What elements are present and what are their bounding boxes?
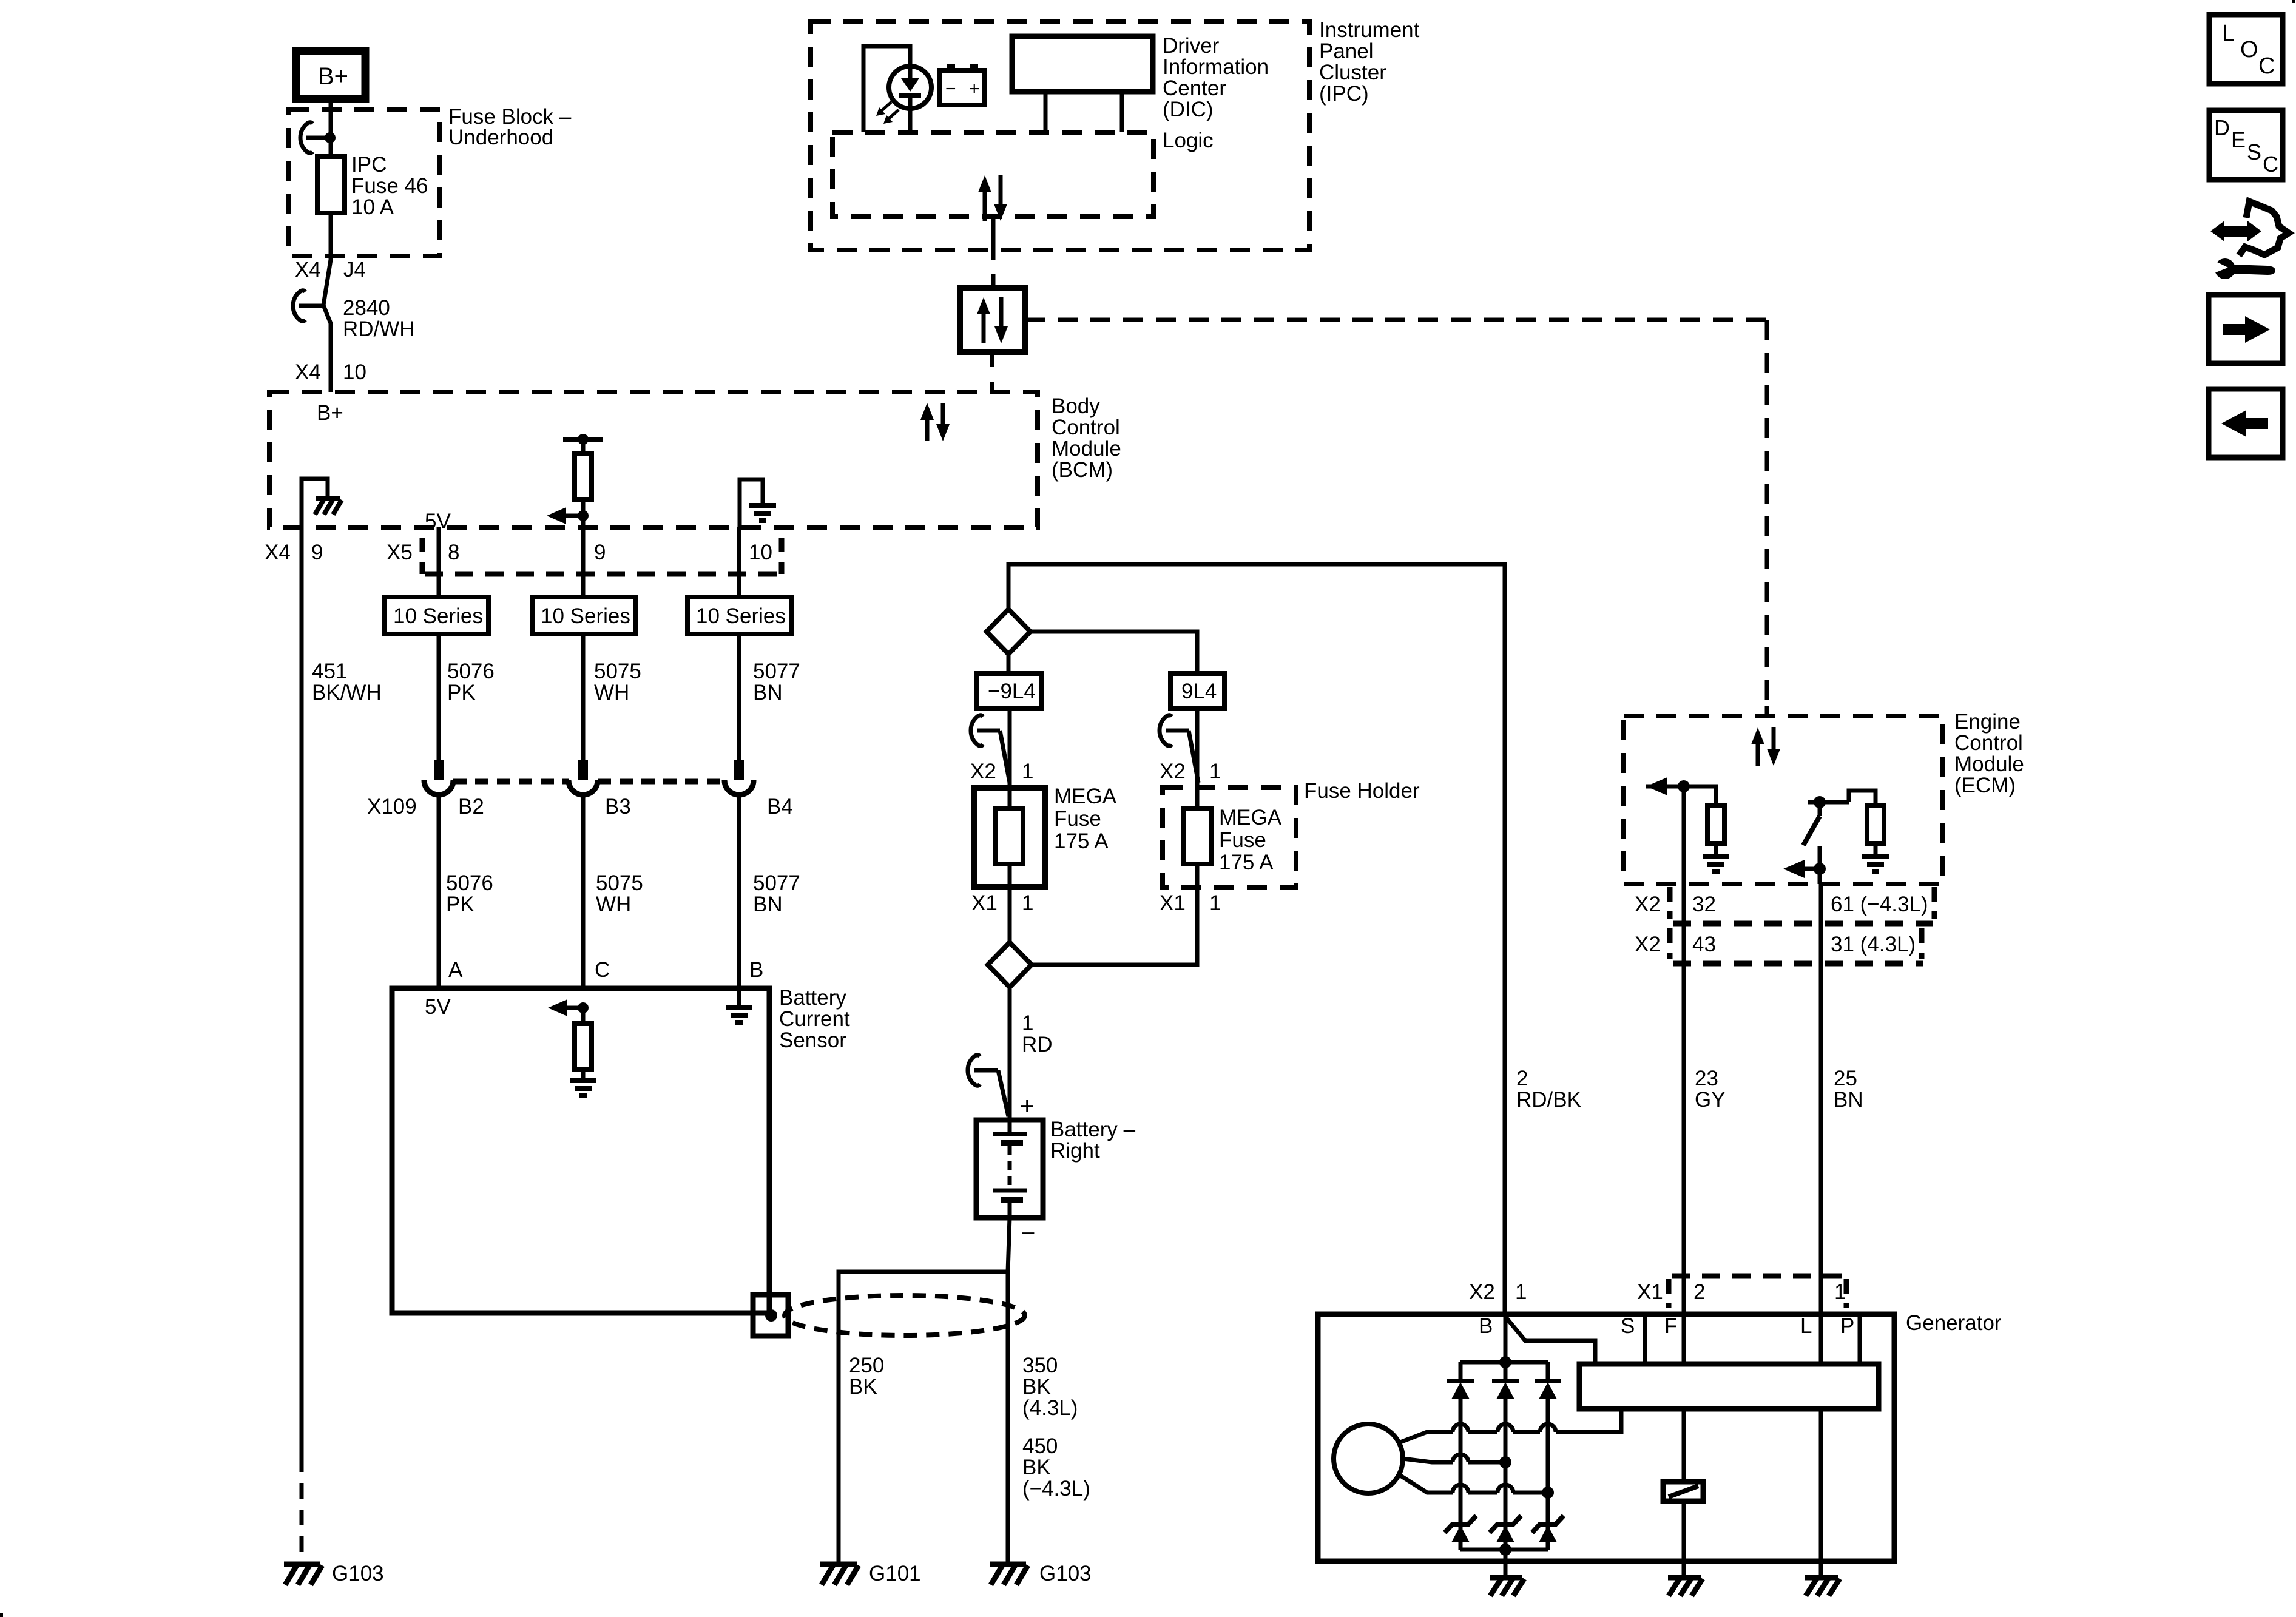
dashed connector line B3-B4	[598, 779, 724, 785]
ECM connector row X2 43 31	[1670, 928, 1923, 964]
svg-text:10 Series: 10 Series	[541, 604, 630, 628]
IPC instrument panel cluster dashed box	[811, 22, 1309, 250]
page artifact mark bottom-left	[0, 1613, 3, 1617]
page artifact mark top-right	[2292, 0, 2295, 3]
wire 25 BN ECM to generator L	[1819, 884, 1823, 1364]
svg-text:BK: BK	[849, 1375, 877, 1399]
svg-text:Logic: Logic	[1163, 129, 1214, 152]
wire diamond to -9L4 branch	[1007, 654, 1011, 673]
wire 5077 BN upper	[737, 634, 741, 761]
svg-text:−: −	[1021, 1220, 1035, 1247]
svg-text:C: C	[595, 958, 610, 982]
svg-text:1: 1	[1209, 891, 1221, 915]
wire BCM pin10 to splice box	[737, 527, 741, 597]
wire 1 RD diamond to battery	[1008, 987, 1012, 1120]
ECM connector row X2 32 61	[1670, 887, 1934, 923]
svg-text:J4: J4	[343, 258, 366, 282]
svg-text:Fuse: Fuse	[1219, 828, 1266, 852]
generator ground 3	[1805, 1578, 1840, 1596]
sensor internal ground below resistor	[570, 1081, 596, 1096]
wire B pin tap to regulator	[1505, 1317, 1595, 1364]
wire B pin to rectifier rail	[1504, 1314, 1508, 1362]
wire BCM pin9 to splice box	[581, 527, 586, 597]
icon LOC box	[2209, 15, 2283, 84]
svg-text:B: B	[749, 958, 763, 982]
svg-text:G103: G103	[1039, 1562, 1092, 1585]
rectifier diode column 1	[1447, 1362, 1474, 1550]
svg-text:B2: B2	[458, 795, 484, 819]
svg-text:450: 450	[1022, 1434, 1058, 1458]
stator phase winding 1	[1399, 1409, 1621, 1443]
svg-text:G103: G103	[332, 1562, 384, 1585]
svg-text:Battery –: Battery –	[1050, 1118, 1136, 1141]
icon DESC box	[2209, 110, 2283, 180]
connector X109 pin B4	[724, 760, 754, 988]
regulator block	[1579, 1364, 1879, 1409]
MEGA fuse 175A right	[1184, 788, 1211, 887]
svg-text:BK: BK	[1022, 1375, 1051, 1399]
svg-text:O: O	[2240, 37, 2258, 62]
clip at left fuse X2 pin	[971, 715, 1010, 783]
battery right box with cells	[976, 1120, 1043, 1218]
svg-text:350: 350	[1022, 1354, 1058, 1377]
svg-text:X4: X4	[265, 541, 291, 564]
wire field coil to ground	[1682, 1501, 1686, 1578]
svg-text:WH: WH	[594, 681, 629, 704]
svg-text:Module: Module	[1954, 752, 2024, 776]
net label 9L4 box	[1170, 673, 1224, 708]
svg-text:2840: 2840	[343, 296, 390, 320]
svg-text:25: 25	[1834, 1067, 1857, 1090]
stator circle	[1334, 1424, 1403, 1493]
ECM serial data arrows	[1751, 727, 1780, 766]
icon vehicle data exchange with wrench	[2210, 201, 2289, 279]
wire 5076 PK upper	[437, 634, 441, 761]
svg-text:1: 1	[1209, 760, 1221, 783]
MEGA fuse 175A left	[974, 788, 1045, 887]
generator box	[1318, 1314, 1894, 1561]
svg-text:+: +	[969, 79, 980, 99]
fuse holder dashed box	[1163, 788, 1296, 887]
serial data link interface to BCM	[990, 352, 994, 393]
svg-text:10 Series: 10 Series	[393, 604, 483, 628]
svg-text:S: S	[2247, 140, 2261, 164]
svg-text:Battery: Battery	[779, 986, 846, 1010]
svg-text:E: E	[2231, 127, 2246, 152]
svg-text:250: 250	[849, 1354, 884, 1377]
wire diamond to 9L4 branch	[1030, 632, 1197, 673]
clip at battery positive	[968, 1055, 1008, 1116]
fuse IPC Fuse 46 10A	[317, 153, 428, 219]
svg-text:−: −	[945, 79, 956, 99]
sensor internal signal arrow and resistor	[548, 999, 592, 1079]
svg-text:X2: X2	[1635, 893, 1661, 916]
wire L terminal through regulator to ground	[1819, 1409, 1823, 1578]
dashed connector line B2-B3	[453, 779, 569, 785]
svg-text:Fuse: Fuse	[1054, 807, 1101, 831]
svg-text:10: 10	[749, 541, 772, 564]
svg-text:WH: WH	[596, 893, 631, 916]
wire battery negative branch to G101	[839, 1272, 1008, 1563]
wire BCM pin8 to splice box	[437, 527, 441, 597]
svg-text:MEGA: MEGA	[1054, 785, 1117, 808]
wire ECM pin 32	[1682, 786, 1686, 884]
connector X109 pin B3	[569, 760, 598, 988]
svg-text:RD: RD	[1022, 1033, 1053, 1056]
svg-text:10 Series: 10 Series	[696, 604, 786, 628]
svg-text:GY: GY	[1695, 1088, 1726, 1112]
logic serial data arrows	[978, 175, 1007, 221]
generator pin divider P right	[1858, 1314, 1862, 1364]
fuse block underhood dashed box	[289, 109, 440, 256]
svg-text:X2: X2	[1635, 933, 1661, 956]
svg-text:Control: Control	[1052, 416, 1120, 439]
sensor output square with junction dot	[753, 1295, 788, 1336]
svg-text:L: L	[1800, 1314, 1812, 1338]
ECM lamp driver switch circuit	[1783, 791, 1889, 884]
svg-text:PK: PK	[446, 893, 474, 916]
svg-text:B4: B4	[767, 795, 793, 819]
svg-text:C: C	[2263, 152, 2278, 177]
svg-text:175 A: 175 A	[1054, 829, 1109, 853]
svg-text:8: 8	[448, 541, 459, 564]
net label -9L4 box	[977, 673, 1042, 708]
serial data link logic to interface box	[991, 217, 996, 288]
wire battery negative down	[1008, 1218, 1010, 1563]
svg-text:2: 2	[1516, 1067, 1528, 1090]
wire 5075 WH upper	[581, 634, 586, 761]
BCM internal ground circuit pin X4-9	[302, 479, 342, 527]
svg-text:Module: Module	[1052, 437, 1121, 461]
svg-text:B: B	[1479, 1314, 1493, 1338]
svg-text:Current: Current	[779, 1007, 850, 1031]
svg-text:C: C	[2258, 53, 2275, 79]
wire B+ to fuse block	[329, 99, 333, 157]
svg-text:9: 9	[594, 541, 606, 564]
svg-text:Fuse 46: Fuse 46	[351, 174, 428, 198]
generator connector X1 dashed row	[1669, 1276, 1846, 1308]
splice pack 10 Series box 1	[385, 597, 488, 634]
svg-text:X2: X2	[1160, 760, 1186, 783]
icon forward arrow box	[2209, 295, 2283, 363]
svg-text:1: 1	[1515, 1280, 1527, 1304]
svg-text:32: 32	[1692, 893, 1716, 916]
battery telltale symbol	[940, 64, 985, 105]
rectifier top rail with junction	[1460, 1356, 1548, 1368]
BCM internal ground pin X5-10	[740, 479, 776, 527]
svg-text:2: 2	[1693, 1280, 1705, 1304]
BCM serial data arrows	[920, 403, 950, 441]
svg-text:D: D	[2214, 115, 2230, 140]
svg-text:X109: X109	[367, 795, 417, 819]
connector X5 dotted row	[422, 538, 782, 574]
svg-text:43: 43	[1692, 933, 1716, 956]
junction diamond upper	[987, 609, 1030, 654]
svg-text:X4: X4	[295, 360, 321, 384]
rectifier diode column 2	[1492, 1362, 1519, 1550]
svg-text:5077: 5077	[753, 871, 800, 895]
svg-text:P: P	[1840, 1314, 1854, 1338]
BCM body control module dashed box	[269, 392, 1038, 527]
wire 9L4 to right mega fuse	[1195, 708, 1200, 788]
svg-text:Instrument: Instrument	[1319, 18, 1420, 42]
wire left fuse to lower diamond	[1008, 887, 1012, 942]
telltale indicator lamp circuit	[863, 46, 931, 132]
splice pack 10 Series box 3	[687, 597, 791, 634]
battery current sensor box	[392, 988, 769, 1313]
svg-text:5077: 5077	[753, 660, 800, 683]
svg-text:X1: X1	[1160, 891, 1186, 915]
svg-text:5V: 5V	[425, 995, 451, 1019]
svg-text:31 (4.3L): 31 (4.3L)	[1831, 933, 1916, 956]
svg-text:5076: 5076	[447, 660, 495, 683]
junction diamond lower	[988, 942, 1032, 987]
serial data link interface to ECM dashed wire	[1025, 320, 1767, 716]
rectifier bottom rail with junction	[1460, 1544, 1548, 1556]
svg-text:BN: BN	[753, 893, 783, 916]
rectifier diode column 3	[1535, 1362, 1561, 1550]
svg-text:1: 1	[1834, 1280, 1846, 1304]
generator pin divider S	[1643, 1314, 1647, 1364]
IPC logic dashed box	[832, 132, 1153, 217]
node B+ power symbol	[296, 51, 365, 99]
svg-text:(ECM): (ECM)	[1954, 774, 2016, 797]
generator ground 2	[1668, 1578, 1703, 1596]
svg-text:61 (−4.3L): 61 (−4.3L)	[1831, 893, 1928, 916]
svg-text:MEGA: MEGA	[1219, 806, 1282, 829]
svg-text:BN: BN	[753, 681, 783, 704]
ground G103 right	[990, 1562, 1092, 1585]
svg-text:X2: X2	[970, 760, 996, 783]
BCM internal pull-up resistor circuit pin X5-9	[547, 434, 603, 527]
svg-text:Generator: Generator	[1906, 1311, 2002, 1335]
svg-text:Underhood: Underhood	[448, 126, 553, 149]
svg-text:Sensor: Sensor	[779, 1028, 846, 1052]
svg-text:G101: G101	[869, 1562, 921, 1585]
svg-text:X2: X2	[1469, 1280, 1495, 1304]
svg-text:9L4: 9L4	[1181, 680, 1217, 703]
wire fuse to BCM with X4 J4 jog	[323, 213, 331, 392]
svg-text:X5: X5	[387, 541, 413, 564]
zener diode column 1	[1445, 1516, 1476, 1542]
stator phase winding 3	[1399, 1474, 1554, 1499]
DIC driver information center block	[1012, 36, 1153, 132]
svg-text:IPC: IPC	[351, 153, 387, 177]
svg-text:L: L	[2222, 21, 2235, 46]
svg-text:RD/WH: RD/WH	[343, 317, 415, 341]
svg-text:Engine: Engine	[1954, 710, 2021, 734]
zener diode column 3	[1532, 1516, 1564, 1542]
wire main battery feed top loop	[1008, 564, 1505, 1312]
svg-text:X1: X1	[1637, 1280, 1663, 1304]
svg-text:S: S	[1621, 1314, 1635, 1338]
ECM engine control module dashed box	[1624, 716, 1943, 884]
svg-text:Center: Center	[1163, 76, 1226, 100]
svg-text:Control: Control	[1954, 731, 2023, 755]
icon back arrow box	[2209, 389, 2283, 457]
dashed sensing ellipse around battery cable	[785, 1295, 1025, 1335]
clip at right fuse X2 pin	[1160, 715, 1198, 783]
field coil	[1663, 1482, 1703, 1501]
clip at X4 J4	[293, 291, 323, 322]
field coil wire from regulator	[1682, 1409, 1686, 1482]
svg-text:(IPC): (IPC)	[1319, 82, 1369, 106]
svg-text:PK: PK	[447, 681, 476, 704]
svg-text:Body: Body	[1052, 394, 1100, 418]
wire -9L4 to left mega fuse	[1008, 708, 1012, 788]
svg-text:−9L4: −9L4	[988, 680, 1036, 703]
svg-text:10: 10	[343, 360, 366, 384]
wire 23 GY ECM to generator F	[1682, 884, 1686, 1364]
generator ground 1	[1490, 1578, 1524, 1596]
svg-text:Right: Right	[1050, 1139, 1100, 1163]
svg-text:5075: 5075	[594, 660, 641, 683]
svg-text:BK: BK	[1022, 1456, 1051, 1479]
svg-text:B+: B+	[317, 401, 343, 425]
svg-text:BK/WH: BK/WH	[312, 681, 382, 704]
sensor internal ground pin B	[726, 988, 752, 1022]
svg-text:5075: 5075	[596, 871, 643, 895]
serial data interface box	[960, 288, 1025, 352]
wire 451 BK/WH left branch	[300, 527, 304, 1456]
svg-text:9: 9	[311, 541, 323, 564]
ground G101	[820, 1562, 921, 1585]
svg-text:5076: 5076	[446, 871, 493, 895]
ECM field sense circuit arrow resistor ground	[1646, 777, 1729, 872]
connector X109 pin B2	[424, 760, 453, 988]
svg-text:F: F	[1664, 1314, 1677, 1338]
svg-text:(−4.3L): (−4.3L)	[1022, 1477, 1090, 1501]
svg-text:1: 1	[1022, 760, 1033, 783]
svg-text:1: 1	[1022, 891, 1033, 915]
svg-text:Panel: Panel	[1319, 39, 1374, 63]
svg-text:X4: X4	[295, 258, 321, 282]
svg-text:Driver: Driver	[1163, 34, 1220, 58]
wire right fuse to lower diamond	[1032, 887, 1197, 965]
svg-text:1: 1	[1022, 1011, 1033, 1035]
clip on B+ feed, junction dot	[300, 123, 336, 154]
svg-text:10 A: 10 A	[351, 195, 394, 219]
svg-text:BN: BN	[1834, 1088, 1863, 1112]
wire rectifier to generator case ground	[1504, 1550, 1508, 1578]
zener diode column 2	[1490, 1516, 1521, 1542]
svg-text:B3: B3	[605, 795, 631, 819]
stator phase winding 2	[1403, 1454, 1511, 1468]
svg-text:Cluster: Cluster	[1319, 61, 1386, 84]
svg-text:451: 451	[312, 660, 347, 683]
svg-text:Information: Information	[1163, 55, 1269, 79]
svg-text:(BCM): (BCM)	[1052, 458, 1113, 482]
svg-text:X1: X1	[971, 891, 998, 915]
svg-text:23: 23	[1695, 1067, 1718, 1090]
svg-text:B+: B+	[318, 63, 348, 90]
splice pack 10 Series box 2	[532, 597, 636, 634]
svg-text:+: +	[1020, 1093, 1034, 1119]
svg-text:(DIC): (DIC)	[1163, 98, 1214, 121]
svg-text:RD/BK: RD/BK	[1516, 1088, 1581, 1112]
svg-text:175 A: 175 A	[1219, 851, 1274, 874]
svg-text:Fuse Holder: Fuse Holder	[1304, 779, 1420, 803]
svg-text:A: A	[448, 958, 463, 982]
ground G103 left	[284, 1562, 384, 1585]
svg-text:(4.3L): (4.3L)	[1022, 1396, 1078, 1420]
